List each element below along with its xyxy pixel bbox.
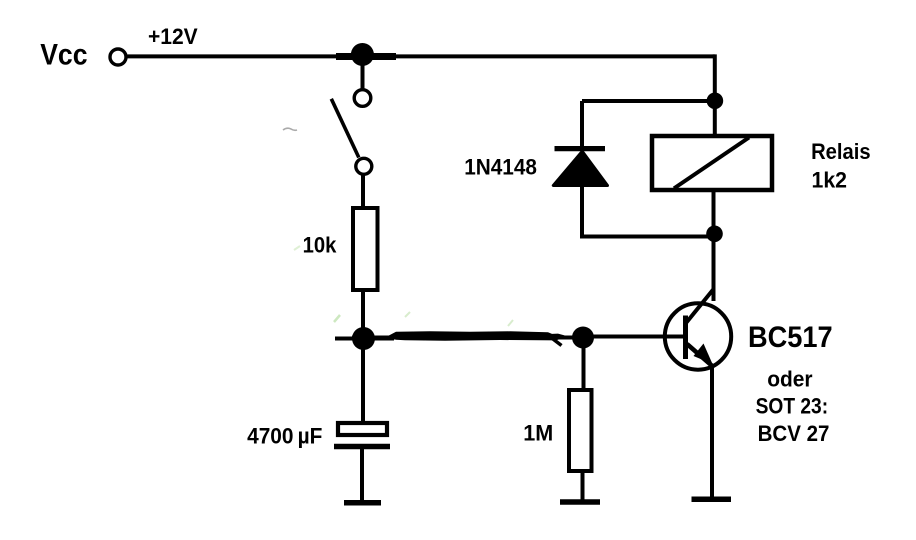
- svg-text:4700 µF: 4700 µF: [247, 423, 322, 448]
- svg-text:oder: oder: [767, 367, 813, 392]
- svg-text:Vcc: Vcc: [40, 39, 87, 72]
- svg-text:10k: 10k: [303, 232, 337, 257]
- svg-text:BCV 27: BCV 27: [758, 421, 830, 446]
- svg-text:BC517: BC517: [748, 321, 833, 354]
- svg-text:SOT 23:: SOT 23:: [756, 394, 829, 419]
- svg-text:+12V: +12V: [148, 24, 198, 49]
- svg-text:Relais: Relais: [811, 139, 871, 164]
- svg-text:1k2: 1k2: [812, 167, 848, 192]
- svg-text:1N4148: 1N4148: [464, 155, 537, 180]
- svg-text:1M: 1M: [523, 421, 553, 446]
